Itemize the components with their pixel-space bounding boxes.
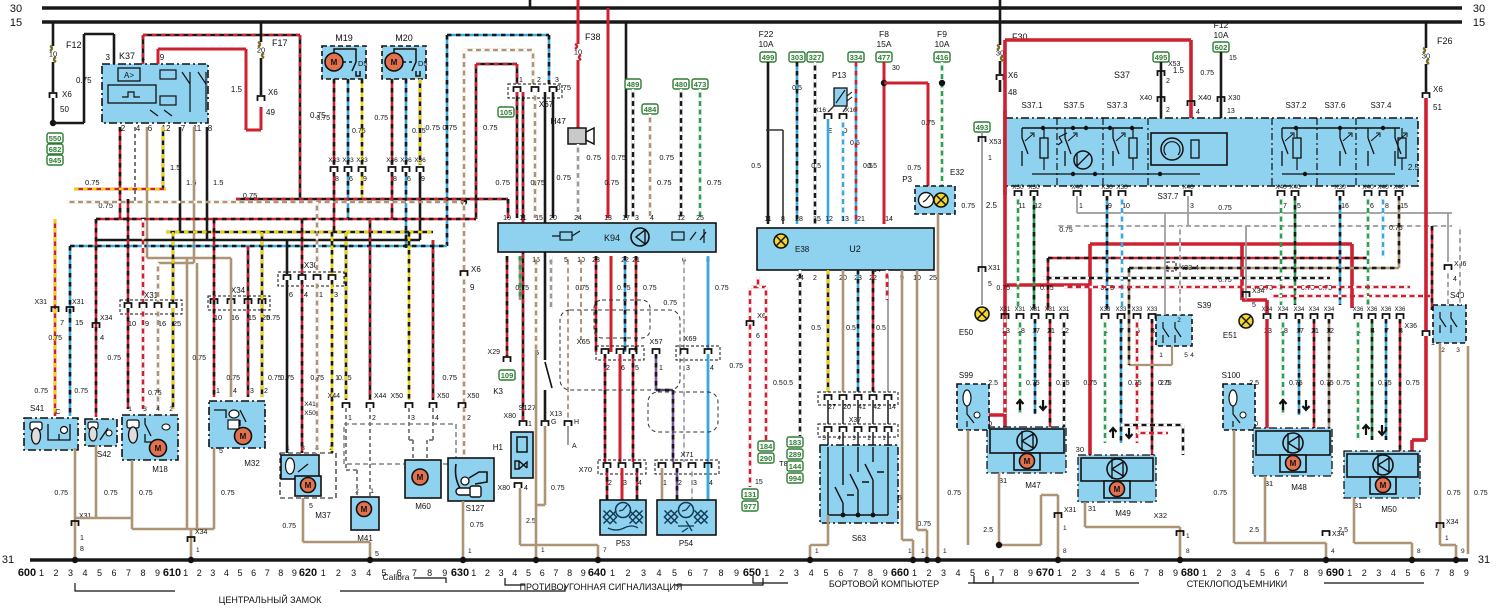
- svg-text:7: 7: [603, 547, 607, 554]
- svg-text:14: 14: [885, 216, 893, 223]
- svg-text:2: 2: [169, 406, 173, 413]
- svg-text:2: 2: [1441, 347, 1445, 354]
- wire loop black/red to X67-1: [476, 63, 517, 66]
- svg-text:2.5: 2.5: [1338, 527, 1348, 534]
- svg-text:E38: E38: [795, 245, 810, 254]
- svg-text:3: 3: [1231, 568, 1236, 578]
- svg-text:5: 5: [97, 568, 102, 578]
- connector X6 pin 48: [997, 75, 1004, 80]
- svg-text:F38: F38: [585, 32, 601, 42]
- svg-text:0.5: 0.5: [846, 325, 856, 332]
- svg-text:P54: P54: [679, 539, 694, 548]
- svg-text:13: 13: [1227, 108, 1235, 115]
- svg-text:2: 2: [813, 275, 817, 282]
- svg-text:S40: S40: [1450, 291, 1465, 300]
- wires X65 to X70: [604, 354, 607, 462]
- window motor unit M47: [987, 427, 1066, 473]
- red wire F26 to M50: [1424, 98, 1428, 330]
- svg-text:F12: F12: [66, 40, 82, 50]
- svg-text:15: 15: [75, 318, 83, 327]
- svg-text:0.75: 0.75: [85, 178, 100, 187]
- page tag 105: [498, 107, 514, 117]
- tag 493 wire grey to E50: [974, 122, 990, 132]
- svg-text:600: 600: [18, 567, 36, 579]
- wire cyan/white X16-D to pin 13: [842, 119, 845, 224]
- svg-text:15: 15: [1400, 203, 1408, 210]
- svg-text:E32: E32: [950, 168, 965, 177]
- svg-text:P3: P3: [902, 175, 912, 184]
- section bracket: central locking: [75, 583, 565, 591]
- svg-text:X36: X36: [1381, 307, 1392, 313]
- svg-text:F22: F22: [759, 29, 774, 39]
- ground wire U2 pin10: [916, 270, 919, 530]
- svg-text:2: 2: [485, 568, 490, 578]
- svg-text:S37.7: S37.7: [1158, 192, 1179, 201]
- svg-text:1: 1: [319, 290, 323, 299]
- svg-text:1: 1: [196, 547, 200, 554]
- svg-text:7: 7: [703, 568, 708, 578]
- wire cyan/black S37 pin9 down: [1106, 196, 1109, 310]
- svg-text:0.75: 0.75: [1474, 490, 1488, 497]
- wire red/black right mesh vertical: [1431, 226, 1434, 310]
- wires X31 row to M47: [1004, 319, 1007, 414]
- svg-text:X33: X33: [1147, 307, 1158, 313]
- svg-text:4: 4: [512, 568, 517, 578]
- svg-text:M19: M19: [335, 33, 353, 43]
- wire green/white S37 pin11 down: [1017, 196, 1020, 310]
- wire black from bus 15 to K94 pin 17: [625, 22, 628, 218]
- connector row X65: [596, 346, 644, 360]
- wire U2 pin 8 thin black: [782, 130, 784, 224]
- svg-text:7: 7: [853, 568, 858, 578]
- svg-text:5: 5: [988, 281, 992, 288]
- svg-text:0.75: 0.75: [1320, 380, 1334, 387]
- svg-text:S63: S63: [852, 534, 867, 543]
- S37 rotary switch symbol: [1074, 151, 1092, 169]
- S37 bottom connectors left: [1015, 191, 1022, 196]
- svg-text:M60: M60: [415, 502, 431, 511]
- svg-text:1: 1: [764, 568, 769, 578]
- S37 bottom connectors right: [1278, 191, 1285, 196]
- svg-text:4: 4: [524, 485, 528, 492]
- svg-text:X36: X36: [1367, 307, 1378, 313]
- svg-text:0.75: 0.75: [54, 490, 68, 497]
- connector row X37: [818, 424, 898, 437]
- svg-text:1: 1: [1445, 535, 1449, 542]
- svg-text:X16: X16: [814, 107, 826, 114]
- svg-text:8: 8: [335, 176, 339, 183]
- svg-text:0.75: 0.75: [1040, 285, 1054, 292]
- svg-text:0.75: 0.75: [316, 115, 330, 122]
- ground wire S41 to bus: [74, 448, 77, 560]
- svg-text:0.5: 0.5: [773, 380, 783, 387]
- svg-text:1: 1: [1186, 533, 1190, 540]
- svg-text:1: 1: [1159, 352, 1163, 359]
- svg-text:0.75: 0.75: [107, 355, 121, 362]
- svg-text:X31: X31: [1059, 307, 1070, 313]
- fuse F12 with wire from bus 15: [52, 22, 55, 46]
- svg-text:8: 8: [1449, 568, 1454, 578]
- svg-text:0.75: 0.75: [611, 153, 626, 162]
- svg-text:4: 4: [233, 388, 237, 395]
- svg-text:3: 3: [693, 480, 697, 487]
- svg-text:9: 9: [470, 283, 475, 292]
- svg-text:8: 8: [427, 568, 432, 578]
- svg-text:109: 109: [501, 371, 514, 380]
- svg-text:16: 16: [1341, 203, 1349, 210]
- svg-text:1: 1: [1057, 568, 1062, 578]
- svg-text:X6: X6: [471, 265, 481, 274]
- wire red/white to tags 184 290: [765, 287, 768, 440]
- svg-text:S99: S99: [959, 371, 974, 380]
- svg-text:X31: X31: [1030, 307, 1041, 313]
- variant dashed outline alarm: [594, 300, 650, 338]
- svg-text:42: 42: [873, 404, 881, 411]
- svg-text:334: 334: [850, 53, 863, 62]
- svg-text:1: 1: [505, 257, 509, 264]
- S37 inner dash-dot separators: [1056, 118, 1058, 186]
- svg-text:1.5: 1.5: [231, 85, 243, 94]
- wire thin X69-3 to X71: [683, 354, 685, 462]
- wire brown horizontal 1: [147, 257, 231, 260]
- wire blue/black horizontal: [70, 245, 447, 248]
- wire loop blue/black to X67-3: [447, 34, 549, 37]
- svg-text:X40: X40: [1393, 184, 1405, 191]
- svg-text:3: 3: [351, 568, 356, 578]
- S37 contact symbols: [1022, 128, 1028, 166]
- wires X31 row to M18 pins: [127, 199, 130, 302]
- svg-text:3: 3: [106, 53, 111, 62]
- svg-text:M49: M49: [1115, 509, 1131, 518]
- svg-text:25: 25: [929, 275, 937, 282]
- svg-text:2: 2: [264, 388, 268, 395]
- svg-text:184: 184: [760, 442, 773, 451]
- svg-text:499: 499: [762, 53, 775, 62]
- connector row X31 dashed above M18: [120, 300, 182, 314]
- mesh above M49: [1121, 424, 1183, 427]
- svg-text:0.75: 0.75: [374, 115, 388, 122]
- wire K94 pin7 red to X65: [610, 256, 613, 352]
- connector row X44: [343, 403, 350, 408]
- svg-text:0.75: 0.75: [586, 153, 601, 162]
- svg-text:6: 6: [251, 568, 256, 578]
- svg-text:X30: X30: [1116, 184, 1128, 191]
- svg-text:4: 4: [656, 568, 661, 578]
- svg-text:2: 2: [197, 568, 202, 578]
- svg-text:K37: K37: [119, 51, 135, 61]
- svg-text:2: 2: [678, 480, 682, 487]
- svg-text:4: 4: [809, 568, 814, 578]
- svg-text:15: 15: [813, 216, 821, 223]
- svg-text:8: 8: [1158, 568, 1163, 578]
- wire thin grey rail upper: [1076, 196, 1078, 213]
- svg-text:6: 6: [1420, 568, 1425, 578]
- svg-text:690: 690: [1326, 567, 1344, 579]
- svg-text:12: 12: [825, 216, 833, 223]
- svg-text:0.75: 0.75: [310, 375, 324, 382]
- red supply wire 2.5 from F30: [1003, 40, 1007, 430]
- svg-text:1: 1: [912, 568, 917, 578]
- svg-text:0.75: 0.75: [148, 390, 162, 397]
- svg-text:0.75: 0.75: [442, 373, 457, 382]
- svg-text:F9: F9: [937, 29, 947, 39]
- wire red/yellow horizontal: [74, 188, 166, 191]
- svg-text:25: 25: [696, 215, 704, 222]
- svg-text:X33: X33: [328, 157, 340, 164]
- svg-text:X6: X6: [62, 90, 72, 99]
- svg-text:X36: X36: [1395, 307, 1406, 313]
- svg-text:1: 1: [468, 548, 472, 555]
- svg-text:30: 30: [1422, 52, 1430, 61]
- svg-text:144: 144: [789, 462, 802, 471]
- ground junction M18/M32 to bus: [132, 528, 214, 531]
- wire green/white S37 pin12 down: [1033, 196, 1036, 310]
- svg-text:1: 1: [663, 480, 667, 487]
- section bracket: on-board computer: [753, 576, 993, 583]
- svg-text:4: 4: [82, 568, 87, 578]
- svg-text:303: 303: [791, 53, 804, 62]
- svg-text:5: 5: [309, 503, 313, 510]
- connector X13 pin H: [567, 256, 569, 420]
- wire K94 pin10 red/black short: [507, 199, 510, 218]
- svg-text:X6: X6: [1008, 71, 1018, 80]
- wire U2 pin2 black/yellow down: [827, 270, 830, 392]
- svg-text:1: 1: [908, 548, 912, 555]
- svg-text:X50: X50: [437, 393, 450, 400]
- svg-text:15: 15: [1473, 17, 1485, 29]
- wire K94 pin21 red/black: [635, 256, 638, 352]
- wire brown/black rail X33-4: [1129, 267, 1399, 270]
- connector X57: [653, 349, 660, 354]
- svg-text:3: 3: [499, 568, 504, 578]
- wires X36 row to M50: [1357, 319, 1360, 440]
- section bracket: Calibra: [414, 578, 446, 583]
- wire brown/white main vertical: [463, 50, 466, 200]
- ground wire M49 via X32: [1084, 502, 1087, 527]
- svg-text:X50: X50: [391, 393, 404, 400]
- svg-text:1: 1: [541, 547, 545, 554]
- svg-text:289: 289: [789, 450, 802, 459]
- wire K94 pin22 cyan/black to X65: [624, 256, 627, 352]
- svg-text:550: 550: [49, 134, 62, 143]
- svg-text:M47: M47: [1025, 481, 1041, 490]
- wire U2 pin24 black/white to tags: [799, 270, 802, 436]
- svg-text:2.5: 2.5: [1160, 380, 1170, 387]
- M20 wires below X36: [391, 172, 394, 219]
- svg-text:480: 480: [675, 80, 688, 89]
- connector row X36 below M20: [389, 167, 396, 172]
- wire K37 pin4 variant dashed: [134, 127, 136, 202]
- svg-text:X34: X34: [1446, 519, 1459, 526]
- svg-text:17: 17: [622, 215, 630, 222]
- wire K37 pin8 black: [206, 127, 209, 240]
- svg-text:0.75: 0.75: [663, 300, 677, 307]
- svg-text:0.75: 0.75: [921, 120, 935, 127]
- svg-text:X36: X36: [386, 157, 398, 164]
- svg-text:0.75: 0.75: [1378, 380, 1392, 387]
- S37 internal bottom bus: [1032, 173, 1200, 175]
- svg-text:4: 4: [156, 406, 160, 413]
- svg-text:X31: X31: [1064, 507, 1077, 514]
- wire cyan/white S37 pin10 down: [1121, 196, 1124, 310]
- svg-text:2: 2: [121, 124, 126, 133]
- svg-text:2: 2: [779, 568, 784, 578]
- svg-text:0.75: 0.75: [1447, 490, 1461, 497]
- motor M41: [351, 497, 379, 530]
- svg-text:5: 5: [1260, 568, 1265, 578]
- connector X6 pin 9: [461, 271, 468, 276]
- connector row X34 for M32: [208, 296, 270, 310]
- motor assembly M18: [122, 415, 178, 460]
- svg-text:48: 48: [1008, 88, 1017, 97]
- motor M20 door lock: [382, 46, 426, 79]
- svg-text:30: 30: [892, 65, 900, 72]
- top stub at x1000: [999, 0, 1002, 22]
- svg-text:7: 7: [1289, 568, 1294, 578]
- svg-text:0.75: 0.75: [657, 178, 672, 187]
- svg-text:2: 2: [53, 568, 58, 578]
- svg-text:0.75: 0.75: [34, 388, 48, 395]
- svg-text:X34: X34: [1278, 307, 1289, 313]
- svg-text:0.75: 0.75: [226, 375, 240, 382]
- connector X6 pin 49: [258, 96, 265, 101]
- svg-text:493: 493: [976, 123, 989, 132]
- wire green/white S37.2 pin7 down: [1280, 196, 1283, 305]
- svg-text:E51: E51: [1223, 331, 1238, 340]
- svg-text:4: 4: [1190, 352, 1194, 359]
- horn H1: [511, 432, 533, 478]
- svg-text:9: 9: [292, 568, 297, 578]
- svg-text:X44: X44: [374, 393, 387, 400]
- svg-text:2: 2: [1362, 568, 1367, 578]
- svg-text:6: 6: [349, 176, 353, 183]
- page tag 473 wire green/white: [692, 79, 708, 89]
- svg-text:3: 3: [686, 365, 690, 372]
- svg-text:0.75: 0.75: [483, 123, 498, 132]
- tag 303 wire blue/black to pin 28: [789, 52, 805, 62]
- connector X6 pin 51: [1423, 93, 1430, 98]
- svg-text:8: 8: [140, 568, 145, 578]
- svg-text:4: 4: [1245, 568, 1250, 578]
- svg-text:X40: X40: [1275, 184, 1287, 191]
- wire black/white long rail: [1043, 277, 1330, 280]
- svg-text:H: H: [574, 419, 579, 426]
- page tags 550 682 945: [47, 133, 63, 143]
- svg-text:1: 1: [1347, 568, 1352, 578]
- connector row X50: [406, 403, 413, 408]
- ground wire brown to bus: [535, 350, 538, 560]
- svg-text:10A: 10A: [1213, 30, 1228, 40]
- ground wire S63: [827, 515, 830, 545]
- svg-text:X40: X40: [1071, 184, 1083, 191]
- wire black/yellow to X50-3: [408, 232, 411, 400]
- svg-text:6: 6: [289, 290, 293, 299]
- svg-text:M: M: [1114, 485, 1121, 494]
- svg-text:2.5: 2.5: [526, 518, 536, 525]
- svg-text:1: 1: [943, 548, 947, 555]
- svg-text:1: 1: [128, 406, 132, 413]
- svg-text:0.75: 0.75: [104, 490, 118, 497]
- svg-text:X33: X33: [1132, 307, 1143, 313]
- svg-text:H1: H1: [493, 443, 504, 452]
- red feed branch M48: [1090, 242, 1352, 246]
- svg-text:M: M: [361, 505, 368, 514]
- svg-text:7: 7: [265, 568, 270, 578]
- svg-text:1: 1: [335, 375, 339, 382]
- svg-text:4: 4: [638, 480, 642, 487]
- svg-text:30: 30: [1076, 445, 1084, 454]
- red feed branch to M49: [1005, 283, 1090, 287]
- svg-text:7: 7: [1144, 568, 1149, 578]
- svg-text:0.75: 0.75: [1289, 380, 1303, 387]
- svg-text:S37.2: S37.2: [1286, 101, 1307, 110]
- svg-text:M: M: [155, 444, 162, 453]
- svg-text:0.75: 0.75: [1389, 225, 1403, 232]
- svg-text:0.75: 0.75: [643, 285, 657, 292]
- svg-text:10: 10: [574, 48, 582, 57]
- variant dashed wires to M41: [345, 408, 347, 470]
- svg-text:4: 4: [224, 568, 229, 578]
- svg-text:X33: X33: [342, 157, 354, 164]
- svg-text:9: 9: [442, 568, 447, 578]
- svg-text:X30: X30: [1334, 184, 1346, 191]
- wire black/red horizontal lower: [96, 218, 476, 221]
- M19 wires below X33: [333, 172, 336, 232]
- svg-text:0.75: 0.75: [1128, 380, 1142, 387]
- svg-text:9: 9: [1173, 568, 1178, 578]
- svg-text:3: 3: [941, 568, 946, 578]
- svg-text:9: 9: [734, 568, 739, 578]
- svg-text:S127: S127: [466, 504, 485, 513]
- wire red/black rail: [1048, 257, 1368, 260]
- svg-text:327: 327: [809, 53, 822, 62]
- wire K94 pin8 blue to X69-4: [707, 256, 710, 350]
- svg-text:8: 8: [1417, 548, 1421, 555]
- svg-text:0.75: 0.75: [1406, 380, 1420, 387]
- svg-text:X32: X32: [1154, 511, 1167, 520]
- svg-text:X50: X50: [467, 393, 480, 400]
- K37 internal relay contacts: [160, 70, 176, 79]
- motor M19 door lock: [322, 46, 366, 79]
- svg-text:9: 9: [421, 176, 425, 183]
- svg-text:0.75: 0.75: [907, 165, 921, 172]
- ground wire S127 contact: [544, 426, 547, 505]
- red supply wire crossing S37 box: [1003, 110, 1007, 195]
- svg-text:12: 12: [677, 215, 685, 222]
- svg-text:11: 11: [519, 215, 526, 222]
- svg-text:U2: U2: [849, 244, 861, 254]
- variant dashed wires to M60: [408, 408, 410, 440]
- wire K94 pin2 grey/white down: [550, 256, 553, 310]
- svg-text:A: A: [572, 443, 577, 450]
- svg-text:484: 484: [644, 105, 657, 114]
- section bracket: power windows: [974, 576, 1424, 583]
- svg-text:473: 473: [694, 80, 707, 89]
- svg-text:416: 416: [936, 53, 949, 62]
- wire black/yellow horizontal: [166, 231, 433, 234]
- svg-text:8: 8: [393, 176, 397, 183]
- svg-text:3: 3: [1086, 568, 1091, 578]
- multi-switch S63: [820, 445, 898, 523]
- svg-text:1: 1: [659, 365, 663, 372]
- svg-text:131: 131: [744, 490, 757, 499]
- svg-text:3: 3: [68, 568, 73, 578]
- svg-text:X40: X40: [1289, 184, 1301, 191]
- wire K37 pin1 red/black frame: [142, 35, 145, 64]
- svg-text:2.5: 2.5: [1408, 163, 1420, 172]
- svg-text:0.75: 0.75: [470, 522, 484, 529]
- svg-text:1: 1: [988, 155, 992, 162]
